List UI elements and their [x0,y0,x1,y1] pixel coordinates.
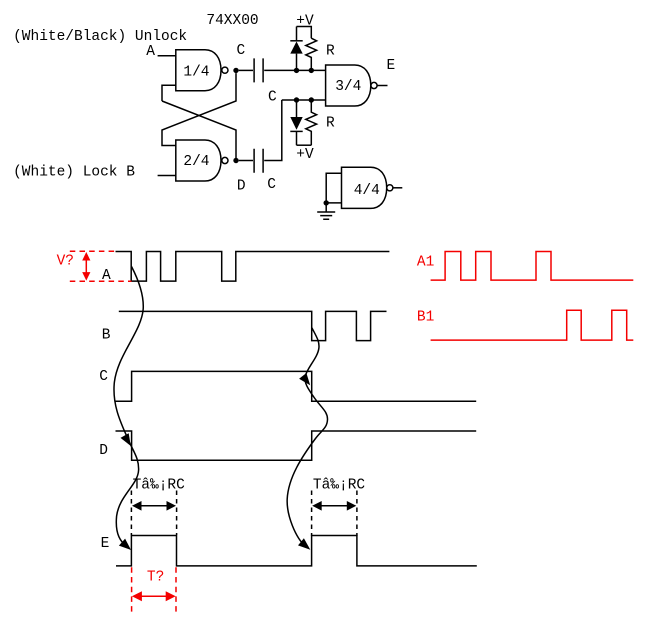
annotation T=RC 1 dashed right [176,491,178,536]
svg-text:V?: V? [57,254,74,270]
waveform A [116,252,390,282]
svg-text:D: D [99,443,108,459]
resistor R1 [306,38,317,70]
svg-text:74XX00: 74XX00 [206,13,258,29]
svg-text:(White) Lock B: (White) Lock B [13,165,135,181]
waveform C [116,371,477,401]
wire D node to cap2 [239,160,253,162]
svg-text:R: R [326,116,335,132]
junction top diode node [294,68,299,73]
wire +V bracket bottom [297,144,312,146]
junction node C [233,68,238,73]
annotation T=RC 2 dashed left [311,491,313,536]
svg-text:C: C [267,177,276,193]
wire input A [158,55,176,57]
red waveform B1 [431,310,634,340]
junction lower resistor node [309,97,314,102]
svg-text:(White/Black) Unlock: (White/Black) Unlock [13,29,187,45]
diode D2 [296,100,298,117]
capacitor C1 [254,58,263,82]
svg-text:2/4: 2/4 [183,154,209,170]
svg-text:E: E [101,536,110,552]
annotation T=RC 2 dashed right [356,491,358,536]
waveform E [116,536,477,566]
annotation T? dashed left red [131,567,133,612]
resistor R2 [306,100,317,145]
junction lower diode node [294,97,299,102]
annotation T? dashed right red [175,567,177,612]
diode D1 [290,40,302,42]
capacitor C2 [254,149,263,173]
annotation T=RC 1 arrow [136,505,172,507]
svg-text:C: C [99,369,108,385]
svg-text:C: C [268,90,277,106]
svg-text:+V: +V [296,147,314,163]
annotation T=RC 1 dashed left [130,491,132,536]
curved arrow B to C [287,328,327,547]
svg-text:A1: A1 [417,255,434,271]
junction gate4 input [324,200,329,205]
curved arrow B to E [298,538,310,550]
wire output E [377,85,387,87]
nand gate U4 4/4 [342,167,387,208]
junction top resistor node [309,68,314,73]
svg-text:B: B [102,328,111,344]
annotation V? red dashed top [70,250,117,252]
annotation T=RC 2 arrow [316,505,352,507]
wire cross coupling C to gate2 [162,73,236,145]
svg-text:R: R [326,44,335,60]
svg-text:1/4: 1/4 [183,65,209,81]
waveform D [116,431,477,460]
nand gate U2 2/4 [176,140,221,181]
nand gate U3 3/4 [326,65,371,106]
annotation T? red arrow [137,595,171,597]
curved arrow A to D [114,267,143,548]
curved arrow A to E [119,539,131,550]
svg-text:4/4: 4/4 [354,183,380,199]
svg-text:D: D [237,178,246,194]
svg-text:B1: B1 [417,309,434,325]
svg-text:T?: T? [147,570,164,586]
svg-text:C: C [237,43,246,59]
ground [317,203,335,219]
wire cross coupling D to gate1 [162,101,236,158]
wire gate1 lower input [162,85,176,101]
svg-text:3/4: 3/4 [335,79,361,95]
svg-text:A: A [146,44,155,60]
wire cap2 up to gate3 lower input [264,100,325,161]
waveform B [119,311,387,340]
wire gate4 output [393,187,402,189]
red waveform A1 [431,252,634,281]
wire cap1 to gate3 input [264,69,325,71]
annotation V? red dashed bottom [70,280,132,282]
nand gate U1 1/4 [176,50,221,91]
wire C node to cap1 [239,69,253,71]
junction node D [233,158,238,163]
wire input B [158,175,176,177]
wire gate4 inputs tied [326,173,341,203]
svg-text:E: E [387,58,396,74]
annotation V? red arrow [85,257,87,276]
wire +V bracket top [297,27,312,39]
